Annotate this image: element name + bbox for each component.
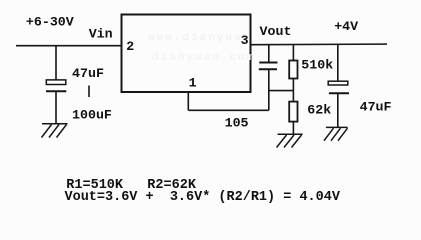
wire pin1 horizontal to C2: [188, 109, 268, 111]
ground right C3: [324, 127, 348, 140]
wire FB branch horizontal: [269, 90, 294, 92]
svg-text:Vin: Vin: [89, 26, 113, 41]
capacitor C1 47uF-100uF: [46, 80, 66, 124]
svg-text:100uF: 100uF: [72, 107, 112, 122]
svg-text:Vout: Vout: [260, 24, 292, 39]
ground left: [42, 124, 68, 138]
svg-text:62k: 62k: [307, 102, 331, 117]
resistor R1 510k: [289, 45, 297, 91]
wire C1 branch vertical: [55, 46, 57, 80]
svg-text:+4V: +4V: [334, 19, 358, 34]
capacitor C3 47uF: [328, 44, 349, 127]
range tick between 47uF and 100uF: [88, 86, 90, 98]
capacitor C2 105: [259, 45, 278, 111]
svg-text:2: 2: [126, 39, 134, 54]
ground middle R2: [277, 134, 303, 147]
svg-text:dianyuan.com: dianyuan.com: [152, 52, 255, 64]
svg-text:510k: 510k: [301, 58, 333, 73]
wire pin1 vertical: [187, 92, 189, 110]
svg-text:47uF: 47uF: [360, 100, 392, 115]
svg-text:1: 1: [189, 75, 197, 90]
svg-text:+6-30V: +6-30V: [26, 15, 74, 30]
svg-text:Vout=3.6V + 3.6V* (R2/R1) = 4: Vout=3.6V + 3.6V* (R2/R1) = 4.04V: [65, 190, 341, 205]
resistor R2 62k: [289, 91, 297, 135]
wire input horizontal: [16, 45, 123, 47]
regulator U1 box: [122, 15, 251, 93]
svg-text:www.dianyuan: www.dianyuan: [148, 32, 251, 44]
svg-text:105: 105: [225, 116, 249, 131]
svg-text:47uF: 47uF: [72, 66, 104, 81]
svg-text:3: 3: [241, 33, 249, 48]
wire output horizontal: [251, 43, 388, 46]
